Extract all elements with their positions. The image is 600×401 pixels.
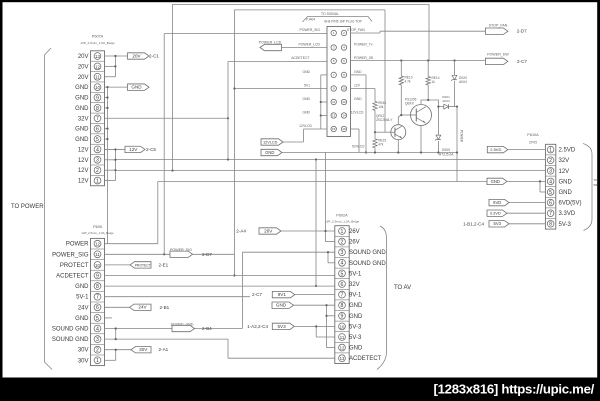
svg-text:7: 7 — [549, 211, 552, 217]
wire QR12 collector — [397, 117, 399, 125]
junction RE15 rail — [374, 151, 376, 153]
junction 32V drop at GND line — [315, 285, 317, 287]
junction 32V bus at riser — [227, 158, 229, 160]
flag 20V to 2-C1 — [128, 53, 150, 59]
diode DS20 AK04 — [454, 61, 456, 76]
PJ404 pins 7 and 8 — [331, 72, 336, 77]
svg-text:7: 7 — [96, 295, 99, 301]
wire SOUND GND pins 4-3 — [105, 328, 243, 330]
svg-text:32V: 32V — [349, 282, 360, 288]
svg-text:9: 9 — [96, 95, 99, 101]
svg-text:5: 5 — [341, 271, 344, 277]
svg-text:32V: 32V — [559, 158, 570, 164]
svg-text:P605: P605 — [93, 225, 102, 229]
wire 5V3 to pins 10-11 — [295, 325, 335, 327]
wire POWER pin12 — [105, 243, 108, 245]
svg-text:2-D7: 2-D7 — [202, 252, 212, 257]
svg-text:2-B1: 2-B1 — [160, 305, 170, 310]
svg-text:POWER_SIG: POWER_SIG — [299, 28, 320, 32]
svg-text:TO: TO — [593, 178, 598, 182]
junction SOUND GND pin4 — [115, 327, 117, 329]
junction POWER at GND rail — [456, 151, 458, 153]
junction rail RE10 — [400, 59, 402, 61]
svg-text:SOUND GND: SOUND GND — [349, 261, 386, 267]
wire GND pin8 drop — [351, 74, 367, 76]
svg-text:11: 11 — [95, 252, 100, 257]
junction rail RE14 — [427, 59, 429, 61]
junction GND pin4 branch — [539, 180, 541, 182]
svg-text:15: 15 — [332, 127, 336, 131]
svg-text:2: 2 — [96, 348, 99, 354]
resistor RE10 4.7k — [400, 61, 402, 77]
svg-text:11: 11 — [95, 75, 100, 80]
svg-text:POWER: POWER — [66, 242, 89, 248]
wire PS1206 collector — [421, 100, 438, 107]
svg-text:3: 3 — [96, 158, 99, 164]
wire 30V pins 2-1 — [105, 349, 132, 351]
TO POWER bracket — [45, 48, 53, 370]
PJ404 pins 9 and 10 — [331, 86, 336, 91]
svg-text:5: 5 — [96, 316, 99, 322]
svg-text:2-A1: 2-A1 — [159, 347, 169, 352]
wire STOP_FAN to flag — [351, 32, 381, 34]
wire 2.5VD to pin1 — [508, 149, 546, 151]
svg-text:1: 1 — [549, 147, 552, 153]
wire 26V to pins 1-2 — [281, 230, 335, 232]
connector P605 — [91, 238, 105, 365]
flag 30V to 2-A1 — [131, 347, 151, 353]
junction PS1206 emitter rail — [420, 151, 422, 153]
svg-text:5V1: 5V1 — [304, 84, 310, 88]
svg-text:30V: 30V — [78, 348, 89, 354]
svg-text:12VLCD: 12VLCD — [351, 111, 364, 115]
svg-text:1: 1 — [96, 178, 99, 184]
wire QR12 emitter — [397, 140, 399, 153]
svg-text:GND: GND — [75, 106, 89, 112]
wire PS1206 emitter — [420, 126, 422, 153]
svg-text:26V: 26V — [264, 228, 273, 233]
wire 20V pins 13-12-11 riser — [105, 55, 128, 57]
junction 26V pin1 — [324, 230, 326, 232]
svg-text:GND: GND — [559, 179, 573, 185]
svg-text:1: 1 — [96, 358, 99, 364]
flag GND (P607A) — [128, 84, 150, 90]
svg-text:SOUND GND: SOUND GND — [52, 327, 89, 333]
svg-text:GND: GND — [302, 111, 310, 115]
svg-text:11: 11 — [340, 335, 345, 340]
junction RE14 collector — [427, 99, 429, 101]
svg-text:47k: 47k — [378, 143, 384, 147]
wire ACDETECT riser to PJ404 pin5 — [227, 62, 229, 160]
wire 12V pins 4-3-2-1 riser — [105, 148, 125, 150]
svg-text:6: 6 — [96, 305, 99, 311]
wire POWER_SIG pin11 bus — [105, 253, 235, 255]
connector PJ404 — [327, 27, 351, 137]
svg-text:POWER: POWER — [460, 130, 464, 143]
svg-text:GND: GND — [559, 190, 573, 196]
svg-text:POWER_SIG: POWER_SIG — [52, 252, 89, 258]
svg-text:MTZJ5.6A: MTZJ5.6A — [439, 153, 455, 157]
connector PJ404 hat bracket — [303, 17, 373, 23]
PJ404 pins 3 and 4 — [331, 45, 336, 50]
junction 20V pin12 — [114, 65, 116, 67]
svg-text:GND: GND — [75, 137, 89, 143]
flag 12V to 2-C5 — [125, 146, 145, 152]
junction QR12 collector — [400, 114, 402, 116]
svg-text:12: 12 — [340, 345, 345, 350]
PJ404 pins 5 and 6 — [331, 58, 336, 63]
wire GND pin5 stub — [105, 317, 113, 319]
junction riser B at ACDETECT line — [233, 274, 235, 276]
wire GND pins 10-9-8-6-5 riser — [105, 86, 128, 88]
TO AV bracket — [377, 226, 387, 370]
svg-text:GND: GND — [131, 85, 142, 90]
svg-text:13P_2.5mm_1.0A_Beige: 13P_2.5mm_1.0A_Beige — [325, 220, 360, 224]
diode DS05 MTZJ5.6A — [437, 107, 439, 135]
junction QR12 emitter — [397, 151, 399, 153]
wire 12V pin10 to RE40 — [351, 88, 376, 90]
flag GND (P610A) — [487, 178, 507, 184]
svg-text:12: 12 — [95, 64, 100, 69]
svg-text:PROTECT: PROTECT — [60, 263, 89, 269]
svg-text:1-B1,2-C4: 1-B1,2-C4 — [463, 221, 484, 226]
svg-text:13: 13 — [340, 356, 345, 361]
svg-text:9: 9 — [341, 314, 344, 320]
connector P607A — [91, 51, 105, 186]
svg-text:2: 2 — [341, 239, 344, 245]
wire 9V1 to pin7 — [295, 294, 335, 296]
svg-text:GND: GND — [354, 70, 362, 74]
resistor RE40 10k — [373, 101, 377, 110]
P610A right bracket — [583, 144, 592, 231]
svg-text:4.7k: 4.7k — [405, 80, 411, 84]
flag 6VD — [489, 199, 509, 205]
svg-text:TO POWER: TO POWER — [11, 204, 44, 210]
svg-text:AK04: AK04 — [442, 99, 450, 103]
junction GND pin11 — [320, 101, 322, 103]
svg-text:POWER_DW: POWER_DW — [487, 53, 509, 57]
svg-text:12VLCD: 12VLCD — [263, 140, 278, 144]
junction DS05 top — [437, 106, 439, 108]
svg-text:9: 9 — [96, 273, 99, 279]
svg-text:8: 8 — [341, 303, 344, 309]
svg-text:6VD(5V): 6VD(5V) — [559, 201, 582, 207]
svg-text:2SC2048-Y: 2SC2048-Y — [376, 118, 393, 122]
wire 12VLCD pin15 — [304, 128, 328, 130]
junction GND pin13 — [320, 114, 322, 116]
flag 12VLCD — [261, 139, 283, 145]
svg-text:5V-1: 5V-1 — [349, 271, 362, 277]
svg-text:7: 7 — [341, 292, 344, 298]
svg-text:9V1: 9V1 — [278, 292, 287, 297]
svg-text:PJ404: PJ404 — [306, 18, 315, 22]
svg-text:2-C5: 2-C5 — [146, 147, 156, 152]
svg-text:2-D7: 2-D7 — [517, 29, 527, 34]
junction 12V pin2 — [114, 169, 116, 171]
connector P610A — [545, 144, 555, 229]
svg-text:6: 6 — [341, 282, 344, 288]
svg-text:QBXX: QBXX — [405, 102, 415, 106]
svg-text:GND: GND — [349, 346, 363, 352]
svg-text:GND: GND — [75, 96, 89, 102]
svg-text:STOP_FAN: STOP_FAN — [347, 28, 365, 32]
junction pin7 at ACDETECT riser — [227, 117, 229, 119]
svg-text:12: 12 — [342, 100, 346, 104]
svg-text:12V: 12V — [559, 169, 570, 175]
svg-text:13: 13 — [332, 114, 336, 118]
junction GND pin10 — [106, 86, 108, 88]
svg-text:3: 3 — [549, 169, 552, 175]
svg-text:30V: 30V — [139, 347, 148, 352]
svg-text:8: 8 — [96, 106, 99, 112]
svg-text:12V: 12V — [78, 158, 89, 164]
svg-text:2-C7: 2-C7 — [517, 59, 527, 64]
svg-text:GND: GND — [302, 70, 310, 74]
svg-text:POWER_2B: POWER_2B — [354, 56, 374, 60]
wire PS1206 base — [401, 114, 410, 116]
svg-text:[1283x816] https://upic.me/: [1283x816] https://upic.me/ — [434, 382, 595, 397]
svg-text:GND: GND — [75, 284, 89, 290]
svg-text:1-A2,2-C4: 1-A2,2-C4 — [247, 324, 268, 329]
svg-text:ACDETECT: ACDETECT — [349, 356, 382, 362]
PJ404 pins 13 and 14 — [331, 113, 336, 118]
svg-text:SB: SB — [593, 183, 597, 187]
svg-text:2-A4: 2-A4 — [236, 229, 246, 234]
svg-text:12P_2.5mm_1.0A_Beige: 12P_2.5mm_1.0A_Beige — [81, 231, 114, 235]
svg-text:8: 8 — [549, 222, 552, 228]
junction GND pin9 — [325, 315, 327, 317]
svg-text:7: 7 — [96, 116, 99, 122]
svg-text:GND: GND — [354, 97, 362, 101]
svg-text:3.3VD: 3.3VD — [490, 211, 501, 216]
wire GND to pin8 — [294, 304, 335, 306]
svg-text:GND: GND — [75, 85, 89, 91]
wire ACDETECT bus — [105, 275, 335, 277]
wire 12V bus — [115, 170, 545, 172]
svg-text:5V3: 5V3 — [277, 324, 286, 329]
svg-text:6VD: 6VD — [493, 200, 501, 205]
svg-text:26V: 26V — [349, 229, 360, 235]
svg-text:W-B P/N5 16P PLUG TOP: W-B P/N5 16P PLUG TOP — [324, 20, 362, 24]
svg-text:12V: 12V — [78, 147, 89, 153]
svg-text:12V: 12V — [354, 84, 361, 88]
junction 12V bus loop riser — [171, 169, 173, 171]
svg-text:16: 16 — [342, 127, 346, 131]
wire GND pins 7-11-13 riser — [321, 74, 327, 76]
svg-text:GND: GND — [491, 179, 500, 184]
wire GND riser pins 8-9-12 — [326, 305, 328, 347]
wire SOUND GND riser to P602A pin3 — [241, 252, 243, 328]
PJ404 pins 1 and 2 — [331, 30, 336, 35]
svg-text:GND: GND — [349, 314, 363, 320]
svg-text:20V: 20V — [78, 54, 89, 60]
wire 5V1 line to PJ404 pin9 — [234, 88, 327, 90]
svg-text:ACDETECT: ACDETECT — [56, 274, 89, 280]
svg-text:24V: 24V — [138, 305, 147, 310]
svg-text:5V-3: 5V-3 — [349, 335, 362, 341]
svg-text:2: 2 — [96, 168, 99, 174]
wire 32V drop to P602A pin6 — [315, 160, 317, 287]
svg-text:GND: GND — [75, 316, 89, 322]
wire POWER_SIG riser A — [163, 34, 165, 255]
svg-text:TO AV: TO AV — [394, 285, 411, 291]
flag 3.3VD — [487, 210, 507, 216]
svg-text:GND: GND — [349, 303, 363, 309]
svg-text:AK04: AK04 — [459, 80, 467, 84]
junction GND pin9 — [106, 96, 108, 98]
PJ404 pins 15 and 16 — [331, 126, 336, 131]
connector P602A — [335, 226, 349, 364]
svg-text:CP05: CP05 — [529, 141, 537, 145]
junction 12V pin3 — [114, 159, 116, 161]
wire riser above pin1 — [325, 153, 327, 232]
junction POWER_SIG riser A — [163, 253, 165, 255]
svg-text:3: 3 — [341, 250, 344, 256]
svg-text:GND: GND — [265, 150, 274, 155]
wire POWER column — [456, 107, 458, 182]
resistor RE15 47k — [374, 132, 376, 139]
svg-text:12V: 12V — [78, 168, 89, 174]
junction rail DS20 — [453, 59, 455, 61]
flag 2.5VD — [487, 146, 508, 152]
junction SOUND GND pin3 — [327, 251, 329, 253]
svg-text:6: 6 — [96, 127, 99, 133]
wire GND pin8 long — [105, 285, 335, 287]
svg-text:10: 10 — [340, 324, 345, 329]
svg-text:GND: GND — [302, 97, 310, 101]
wire 32V bus — [115, 159, 545, 161]
svg-text:4: 4 — [96, 147, 99, 153]
svg-text:12V: 12V — [129, 147, 138, 152]
wire 5VLCD pin16 — [351, 128, 360, 130]
svg-text:5: 5 — [96, 137, 99, 143]
svg-text:10: 10 — [95, 263, 100, 268]
svg-text:20V: 20V — [132, 53, 141, 58]
svg-text:P602A: P602A — [336, 214, 348, 218]
svg-text:DS05: DS05 — [442, 148, 450, 152]
junction GND pin6 — [106, 128, 108, 130]
svg-text:5V-3: 5V-3 — [559, 222, 572, 228]
svg-text:32V: 32V — [78, 116, 89, 122]
junction 5V1 at POWER_SIG riser — [233, 87, 235, 89]
svg-text:STOP_FAN: STOP_FAN — [489, 24, 508, 28]
wire SOUND GND link pins 3-4 — [327, 252, 329, 263]
svg-text:10: 10 — [342, 87, 346, 91]
svg-text:10: 10 — [95, 85, 100, 90]
svg-text:1k: 1k — [432, 80, 436, 84]
flag PROTECT to 2-E1 — [105, 264, 131, 266]
svg-text:4: 4 — [341, 261, 344, 267]
junction 20V pin13 — [114, 55, 116, 57]
flag 24V to 2-B1 — [105, 306, 130, 308]
svg-text:5: 5 — [549, 190, 552, 196]
svg-text:8: 8 — [96, 284, 99, 290]
svg-text:SOUND GND: SOUND GND — [52, 337, 89, 343]
wire 5V-1 pin7 long — [105, 296, 251, 298]
wire 12V top loop to RE14 — [173, 5, 430, 171]
wire GND to pins 4-5 — [507, 180, 545, 182]
flag GND (P602A) — [272, 302, 294, 308]
PJ404 pins 11 and 12 — [331, 99, 336, 104]
junction 5V3 pin10 — [315, 325, 317, 327]
svg-text:20V: 20V — [78, 64, 89, 70]
wire POWER_2B rail — [351, 60, 486, 62]
flag GND (LCD) — [261, 149, 282, 155]
junction GND pin8 drop — [365, 151, 367, 153]
wire GND rail — [282, 152, 457, 154]
junction GND pin8 — [325, 304, 327, 306]
wire GND bus to right connector — [158, 181, 487, 183]
svg-text:13: 13 — [95, 54, 100, 59]
svg-text:6: 6 — [549, 200, 552, 206]
svg-text:TO SIGNAL: TO SIGNAL — [321, 12, 339, 16]
junction 12V pin4 — [114, 148, 116, 150]
junction GND pin5 — [106, 138, 108, 140]
wire 5V3 to pin8 — [509, 223, 545, 225]
svg-text:2-E1: 2-E1 — [159, 262, 169, 267]
junction 30V pin2 — [115, 349, 117, 351]
svg-text:PROTECT: PROTECT — [135, 263, 151, 267]
wire 6VD to pin6 — [509, 202, 545, 204]
svg-text:P610A: P610A — [527, 133, 539, 137]
svg-text:GND: GND — [75, 127, 89, 133]
svg-text:4: 4 — [96, 326, 99, 332]
svg-text:P607A: P607A — [92, 35, 104, 39]
svg-text:2.5VD: 2.5VD — [559, 148, 576, 154]
wire 32V pin7 stub — [105, 117, 229, 119]
svg-text:GND: GND — [276, 303, 287, 308]
svg-text:10k: 10k — [378, 105, 384, 109]
svg-text:12: 12 — [95, 242, 100, 247]
svg-text:13P_2.5mm_1.0A_Beige: 13P_2.5mm_1.0A_Beige — [80, 41, 115, 45]
svg-text:3.3VD: 3.3VD — [559, 211, 576, 217]
resistor RE14 1k — [427, 61, 429, 77]
svg-text:26V: 26V — [349, 240, 360, 246]
wire POWER_SIG riser B — [233, 10, 235, 276]
svg-text:14: 14 — [342, 114, 346, 118]
junction DS01 cathode — [456, 106, 458, 108]
svg-text:24V: 24V — [78, 305, 89, 311]
junction GND pin8 — [106, 107, 108, 109]
svg-text:12VLCD: 12VLCD — [299, 124, 312, 128]
svg-text:5VVLCD: 5VVLCD — [352, 145, 365, 149]
svg-text:3: 3 — [96, 337, 99, 343]
junction 32V drop to P602A — [315, 158, 317, 160]
svg-text:9V-1: 9V-1 — [349, 293, 362, 299]
svg-text:5V3: 5V3 — [494, 221, 502, 226]
svg-text:5V-3: 5V-3 — [349, 324, 362, 330]
svg-text:20V: 20V — [78, 75, 89, 81]
wire GND riser to bus — [108, 243, 158, 245]
svg-text:ACDETECT: ACDETECT — [291, 56, 309, 60]
svg-text:4: 4 — [549, 179, 552, 185]
svg-text:11: 11 — [332, 100, 335, 104]
svg-text:POWER_LCD: POWER_LCD — [299, 43, 321, 47]
wire P605 pin3 to P602A pin13 ACDETECT — [227, 339, 229, 358]
svg-text:2-C1: 2-C1 — [149, 54, 159, 59]
svg-text:POWER_Tv: POWER_Tv — [354, 43, 373, 47]
svg-text:SOUND GND: SOUND GND — [349, 250, 386, 256]
junction DS05 rail — [437, 151, 439, 153]
svg-text:1: 1 — [341, 229, 344, 235]
svg-text:30V: 30V — [78, 358, 89, 364]
svg-text:5V-1: 5V-1 — [76, 295, 89, 301]
svg-text:12V: 12V — [78, 179, 89, 185]
svg-text:2-C7: 2-C7 — [252, 292, 262, 297]
wire 3.3VD to pin7 — [507, 212, 545, 214]
junction RE40 base — [374, 131, 376, 133]
wire QR12 base — [375, 131, 391, 133]
